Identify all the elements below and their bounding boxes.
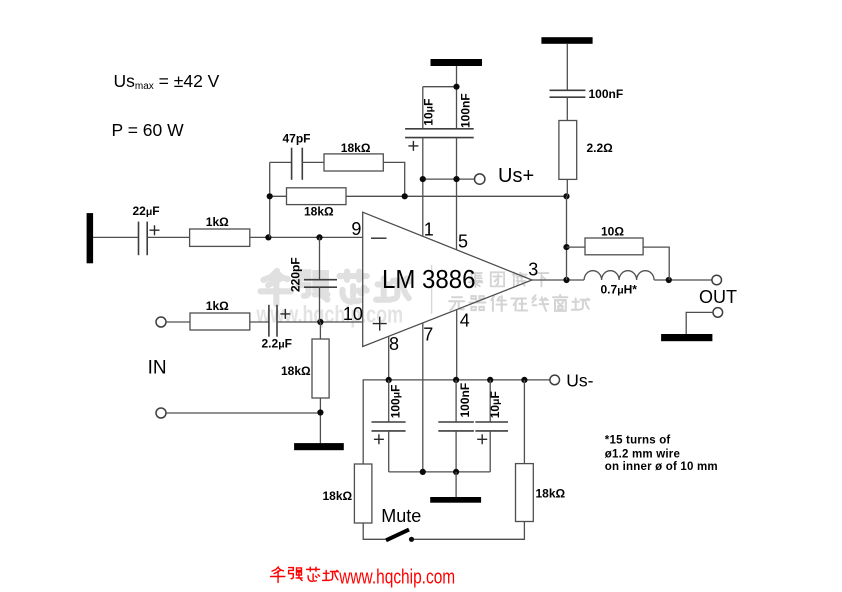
wire R10 right down (643, 247, 669, 280)
wire pin 8 down (388, 336, 390, 380)
svg-text:Us+: Us+ (498, 165, 534, 187)
terminal OUT (712, 275, 722, 285)
node out a (563, 277, 569, 283)
node gnd in (317, 409, 323, 415)
wire C22uF to R 1k (147, 236, 189, 238)
mute switch contact (409, 537, 414, 542)
wire R1k to pin 9 (250, 236, 363, 238)
wire switch to R18k right (414, 522, 524, 540)
svg-text:100nF: 100nF (589, 87, 624, 101)
svg-text:on inner ø of 10 mm: on inner ø of 10 mm (605, 461, 718, 473)
resistor R 18k (feedback top) (324, 154, 383, 171)
resistor R 1k (second) (190, 313, 250, 330)
svg-text:100nF: 100nF (459, 93, 473, 128)
resistor R 10 (585, 238, 643, 255)
svg-text:18kΩ: 18kΩ (323, 489, 353, 503)
svg-text:1kΩ: 1kΩ (206, 299, 229, 313)
node pin10 (317, 319, 323, 325)
svg-text:5: 5 (458, 232, 468, 252)
terminal OUT gnd (713, 308, 723, 318)
capacitor C 220pF (304, 237, 337, 322)
svg-text:10μF: 10μF (488, 391, 502, 418)
node feedback mid (402, 193, 408, 199)
svg-text:8: 8 (389, 334, 399, 354)
plus sign noninverting (373, 317, 387, 331)
resistor R 18k (to gnd) (312, 339, 329, 398)
resistor R 18k (feedback main) (287, 188, 347, 205)
minus sign inverting (371, 237, 387, 239)
resistor R 18k mute right (516, 464, 534, 522)
wire pin10 node down (319, 322, 321, 339)
svg-text:100nF: 100nF (458, 383, 472, 418)
node feedback right (563, 193, 569, 199)
svg-text:18kΩ: 18kΩ (341, 141, 371, 155)
svg-text:OUT: OUT (699, 287, 737, 307)
pin 5 wire (456, 138, 458, 250)
node rail pin4 (453, 377, 459, 383)
feedback left vertical wire (269, 162, 271, 237)
wire in gnd to node (166, 412, 320, 414)
svg-text:0.7μH*: 0.7μH* (601, 283, 638, 297)
svg-text:10Ω: 10Ω (601, 225, 624, 239)
node rail pin8 (386, 377, 392, 383)
wire 47pF to R 18k top (302, 161, 324, 163)
node rail 18k (521, 377, 527, 383)
input terminal bar (87, 213, 94, 263)
node join gnd (453, 469, 459, 475)
resistor R 18k mute left (354, 464, 372, 523)
ground top right (541, 37, 592, 44)
bottom join line (389, 471, 491, 473)
node out b (666, 277, 672, 283)
ground bottom middle (430, 497, 481, 503)
svg-text:Mute: Mute (381, 506, 421, 526)
feedback node line (270, 195, 567, 197)
terminal Us- (550, 375, 560, 385)
ground top middle (431, 59, 483, 66)
wire to R10 (567, 246, 586, 248)
wire R18k top to node line (383, 162, 404, 196)
inductor L 0.7uH (584, 271, 654, 280)
capacitor C 100nF bottom (438, 380, 474, 472)
red watermark 华强芯城 (271, 567, 339, 583)
wire out gnd (686, 312, 713, 334)
svg-text:ø1.2 mm wire: ø1.2 mm wire (605, 449, 680, 461)
svg-text:Usmax = ±42 V: Usmax = ±42 V (114, 71, 220, 92)
capacitor C 47pF (292, 148, 303, 180)
wire join to ground (455, 472, 457, 497)
note text (605, 434, 718, 473)
ground left mid (294, 443, 344, 450)
wire R18k left to switch (363, 523, 386, 539)
node 10R left (563, 244, 569, 250)
svg-text:LM 3886: LM 3886 (382, 264, 476, 294)
ground out (661, 334, 712, 341)
capacitor C 100uF (372, 380, 406, 472)
watermark divider line (431, 265, 433, 314)
svg-text:18kΩ: 18kΩ (281, 364, 311, 378)
wire C2.2uF to pin 10 (277, 321, 363, 323)
Us+ node line (423, 178, 475, 180)
capacitor C 10uF bottom (475, 380, 508, 472)
svg-text:1: 1 (424, 220, 434, 240)
wire input to C 22uF (93, 236, 138, 238)
node Us+ b (453, 176, 459, 182)
Us- rail (363, 380, 550, 464)
watermark big text 华强芯城 (260, 271, 409, 304)
wire 100nF to R 2.2 (566, 97, 568, 120)
op-amp U1 LM3886 (363, 212, 532, 346)
node join pin7 (420, 469, 426, 475)
node Us+ a (420, 176, 426, 182)
node inverting input (265, 234, 271, 240)
wire R2.2 to node (566, 179, 568, 196)
wire top branch left (270, 161, 292, 163)
node rail 10uF (487, 377, 493, 383)
svg-text:7: 7 (423, 325, 433, 345)
mute switch blade (386, 530, 409, 541)
svg-text:220pF: 220pF (289, 257, 303, 292)
svg-text:IN: IN (148, 357, 167, 378)
svg-text:100μF: 100μF (389, 384, 403, 418)
svg-text:Us-: Us- (566, 371, 593, 391)
watermark 元器件在线商城 (449, 295, 589, 311)
terminal input gnd (156, 408, 166, 418)
terminal Us+ (475, 174, 485, 184)
svg-text:2.2Ω: 2.2Ω (587, 141, 614, 155)
wire in2 to R1k (166, 321, 190, 323)
svg-text:10μF: 10μF (422, 99, 436, 126)
resistor R 1k (input) (190, 229, 250, 246)
capacitor pair C 10uF / C 100nF top plates (405, 129, 474, 151)
svg-text:2.2μF: 2.2μF (262, 336, 292, 350)
svg-text:10: 10 (343, 304, 363, 324)
capacitor C 2.2uF (269, 305, 290, 337)
node feedback left (267, 193, 273, 199)
wire node up (566, 196, 568, 280)
wire output pin3 (532, 279, 712, 281)
resistor R 2.2 (559, 121, 577, 180)
wire R1k to C2.2uF (250, 321, 269, 323)
svg-text:9: 9 (351, 219, 361, 239)
svg-text:1kΩ: 1kΩ (206, 215, 229, 229)
svg-text:18kΩ: 18kΩ (536, 487, 566, 501)
wire ground to 100nF (566, 44, 568, 91)
svg-text:P = 60 W: P = 60 W (112, 120, 185, 140)
svg-text:*15 turns of: *15 turns of (605, 434, 671, 446)
capacitor C 22uF (139, 222, 160, 256)
svg-text:22μF: 22μF (133, 204, 160, 218)
wire rail to R18k right (523, 380, 525, 464)
wire pin 4 down (456, 310, 458, 380)
svg-text:47pF: 47pF (283, 132, 311, 146)
capacitor C 100nF (top right) (550, 90, 586, 97)
node 220pF tap (316, 234, 322, 240)
watermark 集团旗下 (469, 272, 549, 288)
pin 1 wire (422, 138, 424, 237)
wire pin 7 down (422, 323, 424, 472)
svg-text:4: 4 (460, 311, 470, 331)
wire R18k to gnd node (319, 398, 321, 443)
node cap top (453, 84, 459, 90)
terminal input 2 (156, 317, 166, 327)
wire ground to caps (423, 66, 457, 129)
svg-text:www.hqchip.com: www.hqchip.com (338, 566, 455, 588)
svg-text:3: 3 (528, 259, 538, 279)
svg-text:18kΩ: 18kΩ (304, 205, 334, 219)
